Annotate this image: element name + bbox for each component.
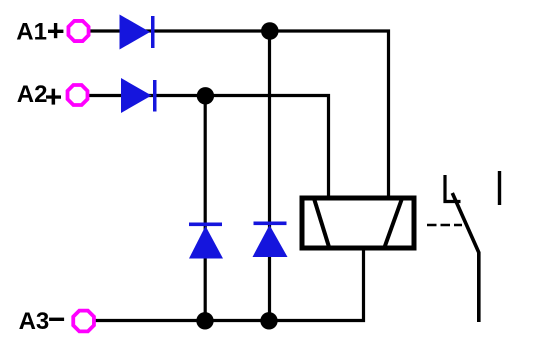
svg-text:A1: A1 xyxy=(16,18,47,45)
svg-text:A2: A2 xyxy=(17,81,48,108)
svg-text:A3: A3 xyxy=(19,308,50,335)
